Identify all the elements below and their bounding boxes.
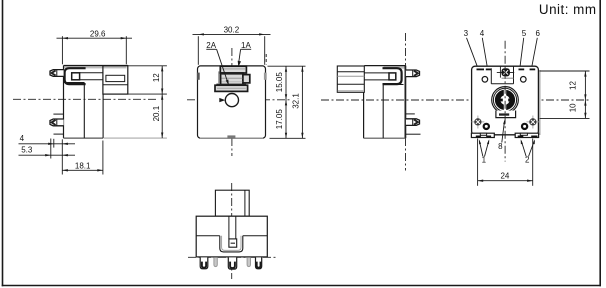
svg-text:15.05: 15.05	[275, 72, 284, 93]
svg-text:12: 12	[152, 73, 161, 82]
svg-text:24: 24	[500, 172, 509, 181]
svg-text:4: 4	[20, 134, 25, 143]
svg-text:5.3: 5.3	[21, 146, 33, 155]
svg-text:12: 12	[568, 81, 577, 90]
svg-text:2: 2	[525, 156, 530, 165]
svg-text:5: 5	[522, 29, 527, 38]
svg-text:17.05: 17.05	[275, 109, 284, 130]
svg-text:20.1: 20.1	[152, 105, 161, 121]
svg-text:29.6: 29.6	[90, 29, 106, 38]
svg-text:32.1: 32.1	[292, 93, 301, 109]
svg-text:10: 10	[568, 103, 577, 112]
svg-text:1: 1	[482, 156, 487, 165]
svg-text:Unit: mm: Unit: mm	[539, 2, 597, 17]
svg-text:8: 8	[498, 142, 503, 151]
svg-text:3: 3	[464, 29, 469, 38]
svg-text:6: 6	[535, 29, 540, 38]
svg-text:18.1: 18.1	[75, 161, 91, 170]
svg-text:4: 4	[480, 29, 485, 38]
svg-text:30.2: 30.2	[224, 26, 240, 35]
